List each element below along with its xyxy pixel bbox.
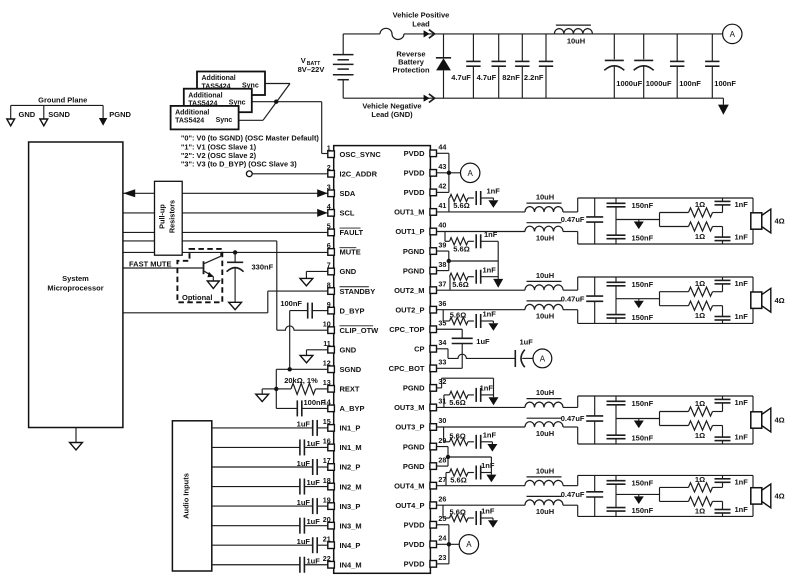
pin 35 CPC_TOP <box>430 326 437 333</box>
capacitor 150nF OUT1 bottom <box>615 220 617 236</box>
inductor 10uH OUT1 M <box>437 211 526 213</box>
svg-text:5.6Ω: 5.6Ω <box>453 201 469 210</box>
pin 23 PVDD <box>430 561 437 568</box>
pin 11 GND <box>328 346 335 353</box>
pin 5 FAULT <box>328 229 335 236</box>
svg-text:44: 44 <box>438 143 446 152</box>
resistor 1ohm OUT3 top <box>689 407 713 416</box>
pin 17 IN2_P <box>328 464 335 471</box>
ground arrow OUT1 <box>638 220 640 222</box>
capacitor 1uF CP pump <box>514 350 516 367</box>
capacitor 1uF IN2_P <box>212 466 313 468</box>
svg-text:4Ω: 4Ω <box>775 296 785 305</box>
svg-text:PGND: PGND <box>403 384 425 393</box>
svg-text:1nF: 1nF <box>735 398 749 407</box>
capacitor 1uF CPC <box>437 328 463 330</box>
wire rails OUT2 <box>577 277 579 290</box>
pin 13 REXT <box>328 386 335 393</box>
junction PGND 29/28 <box>446 455 450 459</box>
svg-text:1uF: 1uF <box>520 337 534 346</box>
capacitor 1nF snubber OUT4_P <box>475 511 477 525</box>
wire SCL row <box>123 212 328 214</box>
svg-text:IN4_M: IN4_M <box>340 560 362 569</box>
capacitor 0.47uF OUT2 <box>594 277 596 296</box>
svg-text:8V–22V: 8V–22V <box>298 65 325 74</box>
ground SGND open arrow <box>262 388 276 390</box>
svg-text:4.7uF: 4.7uF <box>451 73 471 82</box>
junction PVDD bottom <box>447 542 451 546</box>
svg-text:5.6Ω: 5.6Ω <box>450 311 466 320</box>
diode reverse battery protection <box>443 34 445 58</box>
net label A charge pump <box>533 349 552 368</box>
wire bottom rail vehicle negative <box>343 97 723 99</box>
inductor 10uH OUT1 P <box>437 231 526 233</box>
ground arrow snubber OUT1_M <box>492 198 494 200</box>
svg-text:1: 1 <box>327 143 331 152</box>
resistor 5.6ohm snubber OUT1_M <box>448 198 450 212</box>
svg-text:36: 36 <box>438 299 446 308</box>
svg-text:17: 17 <box>323 456 331 465</box>
svg-text:1uF: 1uF <box>297 498 311 507</box>
junction MUTE node <box>233 250 237 254</box>
svg-text:4Ω: 4Ω <box>775 416 785 425</box>
svg-text:30: 30 <box>438 416 446 425</box>
svg-text:OUT2_M: OUT2_M <box>394 286 424 295</box>
pin 41 OUT1_M <box>430 209 437 216</box>
resistor 1ohm OUT1 top <box>689 208 713 217</box>
svg-text:FAULT: FAULT <box>340 228 364 237</box>
wire SDA row <box>123 192 328 194</box>
svg-text:100nF: 100nF <box>280 299 302 308</box>
svg-text:1uF: 1uF <box>307 517 321 526</box>
svg-text:1nF: 1nF <box>735 279 749 288</box>
inductor 10uH power <box>554 29 592 34</box>
svg-text:SGND: SGND <box>340 365 362 374</box>
svg-text:PGND: PGND <box>403 266 425 275</box>
svg-text:1nF: 1nF <box>487 187 501 196</box>
wire top rail vehicle positive <box>343 33 380 35</box>
capacitor 1nF snubber OUT3_M <box>475 388 477 402</box>
connector chevrons bottom <box>424 95 430 102</box>
pin 9 D_BYP <box>328 307 335 314</box>
svg-text:150nF: 150nF <box>632 313 654 322</box>
svg-text:23: 23 <box>438 553 446 562</box>
inductor 10uH OUT3 P <box>437 426 526 428</box>
resistor 5.6ohm snubber OUT1_P <box>444 232 446 242</box>
svg-text:Protection: Protection <box>392 66 430 75</box>
svg-text:100nF: 100nF <box>714 79 736 88</box>
pin 39 PGND <box>430 248 437 255</box>
svg-text:20kΩ, 1%: 20kΩ, 1% <box>284 376 318 385</box>
svg-text:Resistors: Resistors <box>168 200 177 233</box>
svg-text:18: 18 <box>323 476 331 485</box>
inductor 10uH OUT2 M <box>437 289 526 291</box>
capacitor 150nF OUT3 bottom <box>615 419 617 436</box>
wire zobel OUT2 <box>659 292 661 306</box>
ground arrow PGND ch1/2 <box>493 279 503 288</box>
capacitor 150nF OUT3 top <box>615 396 617 401</box>
wire rails OUT1 <box>577 198 579 212</box>
svg-text:1nF: 1nF <box>735 505 749 514</box>
junction PGND 39/38 <box>447 259 451 263</box>
capacitor 1nF OUT2 top <box>722 284 724 292</box>
capacitor 1000uF bulk <box>613 34 615 59</box>
svg-text:1Ω: 1Ω <box>695 232 705 241</box>
svg-text:Pull-up: Pull-up <box>158 204 167 229</box>
svg-text:1nF: 1nF <box>735 478 749 487</box>
svg-text:0.47uF: 0.47uF <box>561 294 585 303</box>
block Pull-up Resistors <box>155 181 183 255</box>
svg-text:5.6Ω: 5.6Ω <box>452 280 468 289</box>
svg-text:REXT: REXT <box>340 385 360 394</box>
connector chevrons top <box>424 30 430 37</box>
wire sync box1 to diagonal <box>265 83 290 85</box>
wire PGND pins 39/38 <box>437 250 449 252</box>
svg-text:28: 28 <box>438 455 446 464</box>
capacitor 150nF OUT1 top <box>615 198 617 203</box>
svg-text:PVDD: PVDD <box>404 149 425 158</box>
svg-text:Audio Inputs: Audio Inputs <box>182 473 191 519</box>
capacitor 1uF IN3_M <box>212 525 300 527</box>
svg-text:42: 42 <box>438 182 446 191</box>
capacitor 1nF snubber OUT2_P <box>475 314 477 328</box>
svg-text:A: A <box>466 540 472 549</box>
svg-text:PGND: PGND <box>403 442 425 451</box>
svg-text:150nF: 150nF <box>632 434 654 443</box>
resistor 5.6ohm snubber OUT4_M <box>445 473 447 486</box>
svg-text:4Ω: 4Ω <box>775 217 785 226</box>
svg-text:20: 20 <box>323 515 331 524</box>
svg-text:MUTE: MUTE <box>340 248 361 257</box>
capacitor 1nF OUT3 bottom <box>722 426 724 438</box>
pin 37 OUT2_M <box>430 287 437 294</box>
svg-text:PGND: PGND <box>109 110 131 119</box>
wire MUTE row <box>123 251 328 253</box>
svg-text:35: 35 <box>438 318 446 327</box>
svg-text:IN3_P: IN3_P <box>340 502 361 511</box>
capacitor 150nF OUT2 bottom <box>615 299 617 315</box>
svg-text:IN2_P: IN2_P <box>340 463 361 472</box>
capacitor 1uF IN4_P <box>212 544 313 546</box>
svg-text:40: 40 <box>438 221 446 230</box>
capacitor 82nF input filter <box>521 34 523 62</box>
wire sync box3 to diagonal <box>238 119 263 121</box>
svg-text:43: 43 <box>438 162 446 171</box>
svg-text:15: 15 <box>323 417 331 426</box>
svg-text:5.6Ω: 5.6Ω <box>449 431 465 440</box>
capacitor 1nF OUT4 top <box>722 482 724 487</box>
capacitor 1nF snubber OUT1_M <box>475 191 477 205</box>
wire rails OUT4 <box>577 475 579 485</box>
wire STANDBY path <box>123 312 268 314</box>
svg-text:10uH: 10uH <box>536 388 554 397</box>
pin 18 IN2_M <box>328 483 335 490</box>
ground arrow OUT4 <box>638 494 640 496</box>
pin 43 PVDD <box>430 170 437 177</box>
svg-text:10uH: 10uH <box>536 233 554 242</box>
net label A pvdd bottom <box>459 535 478 554</box>
pin 34 CP <box>430 346 437 353</box>
svg-text:11: 11 <box>323 339 331 348</box>
svg-text:4.7uF: 4.7uF <box>477 73 497 82</box>
svg-text:5.6Ω: 5.6Ω <box>450 476 466 485</box>
svg-text:OSC_SYNC: OSC_SYNC <box>340 150 382 159</box>
svg-text:1uF: 1uF <box>307 556 321 565</box>
wire CLIP_OTW feeder <box>123 240 277 242</box>
inductor 10uH OUT4 M <box>437 485 526 487</box>
capacitor 1nF OUT2 bottom <box>722 306 724 317</box>
svg-text:PGND: PGND <box>403 462 425 471</box>
svg-text:IN2_M: IN2_M <box>340 482 362 491</box>
pin 26 OUT4_P <box>430 502 437 509</box>
capacitor 1000uF bulk <box>643 34 645 59</box>
svg-text:1nF: 1nF <box>480 384 494 393</box>
ground arrow OUT2 <box>638 299 640 301</box>
svg-text:Additional: Additional <box>175 110 209 117</box>
junction sync <box>274 100 278 104</box>
svg-text:TAS5424: TAS5424 <box>175 118 204 125</box>
svg-text:1uF: 1uF <box>297 420 311 429</box>
svg-text:19: 19 <box>323 495 331 504</box>
capacitor 4.7uF input filter <box>472 34 474 62</box>
resistor 5.6ohm snubber OUT4_P <box>442 505 444 518</box>
svg-text:A: A <box>468 169 474 178</box>
svg-text:OUT1_P: OUT1_P <box>395 227 424 236</box>
resistor 1ohm OUT3 bottom <box>689 421 713 430</box>
wire PVDD top pins 44/43/42 <box>437 152 449 154</box>
resistor 1ohm OUT4 top <box>689 483 713 492</box>
pin 31 OUT3_M <box>430 404 437 411</box>
svg-text:14: 14 <box>323 398 331 407</box>
svg-text:24: 24 <box>438 534 446 543</box>
resistor 20kOhm REXT <box>276 388 291 390</box>
svg-text:PVDD: PVDD <box>404 560 425 569</box>
block System Microprocessor <box>29 142 123 428</box>
svg-text:1uF: 1uF <box>476 337 490 346</box>
svg-text:10uH: 10uH <box>536 312 554 321</box>
wire I2C_ADDR <box>252 173 328 175</box>
svg-text:10uH: 10uH <box>536 271 554 280</box>
wire mid node OUT3 <box>616 418 660 420</box>
junction D_BYP to SGND <box>288 367 292 371</box>
wire PGND tie ch1/2 <box>449 260 498 262</box>
wire PGND pins 29/28 <box>437 446 449 448</box>
ground GND pin11 arrow <box>307 349 328 351</box>
pin 27 OUT4_M <box>430 482 437 489</box>
svg-text:1uF: 1uF <box>307 478 321 487</box>
capacitor 100nF D_BYP <box>312 310 328 312</box>
capacitor 1nF snubber OUT1_P <box>475 234 477 248</box>
svg-text:37: 37 <box>438 279 446 288</box>
speaker 4ohm OUT2 <box>751 292 762 308</box>
svg-text:41: 41 <box>438 201 446 210</box>
ground arrow snubber OUT3_P <box>491 442 493 444</box>
svg-text:1nF: 1nF <box>735 200 749 209</box>
ground GND pin7 arrow <box>306 270 327 272</box>
svg-text:A: A <box>540 354 546 363</box>
svg-text:CLIP_OTW: CLIP_OTW <box>340 326 380 335</box>
capacitor 330nF <box>234 252 236 262</box>
svg-text:OUT3_P: OUT3_P <box>395 423 424 432</box>
svg-text:IN1_M: IN1_M <box>340 443 362 452</box>
svg-text:1Ω: 1Ω <box>695 311 705 320</box>
ground arrow snubber OUT4_P <box>492 518 494 520</box>
svg-text:1nF: 1nF <box>483 310 497 319</box>
block Additional TAS5424 #2 <box>184 89 252 113</box>
svg-text:10uH: 10uH <box>536 193 554 202</box>
pin 4 SCL <box>328 210 335 217</box>
svg-text:10uH: 10uH <box>536 466 554 475</box>
svg-text:1nF: 1nF <box>735 233 749 242</box>
capacitor 0.47uF OUT3 <box>594 396 596 416</box>
svg-text:21: 21 <box>323 534 331 543</box>
svg-text:0.47uF: 0.47uF <box>561 490 585 499</box>
svg-text:1Ω: 1Ω <box>695 200 705 209</box>
capacitor 2.2nF input filter <box>545 34 547 62</box>
capacitor 100nF hf <box>711 34 713 62</box>
svg-text:V: V <box>301 56 306 65</box>
speaker 4ohm OUT3 <box>751 412 762 428</box>
ground arrow snubber OUT2_P <box>492 321 494 323</box>
svg-text:8: 8 <box>327 280 331 289</box>
svg-text:GND: GND <box>340 267 357 276</box>
svg-text:1Ω: 1Ω <box>695 399 705 408</box>
svg-text:1uF: 1uF <box>297 537 311 546</box>
pin 29 PGND <box>430 443 437 450</box>
svg-text:82nF: 82nF <box>502 73 520 82</box>
svg-text:IN3_M: IN3_M <box>340 521 362 530</box>
battery V_BATT <box>342 34 344 55</box>
resistor 5.6ohm snubber OUT3_M <box>443 395 445 408</box>
wire sync diagonal <box>263 84 290 121</box>
svg-text:A_BYP: A_BYP <box>340 404 365 413</box>
svg-text:1000uF: 1000uF <box>646 79 672 88</box>
ground arrow PGND ch4 <box>486 475 496 483</box>
svg-text:Vehicle Positive: Vehicle Positive <box>393 11 450 20</box>
svg-text:1uF: 1uF <box>297 459 311 468</box>
pin 24 PVDD <box>430 541 437 548</box>
ground PGND filled arrow <box>102 105 104 118</box>
capacitor 1uF IN3_P <box>212 505 313 507</box>
inductor 10uH OUT3 M <box>437 406 526 408</box>
fuse <box>380 28 404 39</box>
capacitor 1nF snubber OUT4_M <box>475 466 477 480</box>
resistor 5.6ohm snubber OUT2_P <box>442 310 444 321</box>
svg-text:3: 3 <box>327 183 331 192</box>
svg-text:4: 4 <box>327 202 331 211</box>
speaker 4ohm OUT4 <box>751 488 762 504</box>
wire PGND pin32 tie <box>437 387 442 389</box>
svg-text:Optional: Optional <box>182 293 212 302</box>
svg-text:PVDD: PVDD <box>404 169 425 178</box>
pin 40 OUT1_P <box>430 228 437 235</box>
resistor 1ohm OUT2 top <box>689 287 713 296</box>
speaker 4ohm OUT1 <box>751 213 762 229</box>
pin 28 PGND <box>430 463 437 470</box>
svg-text:1Ω: 1Ω <box>695 279 705 288</box>
svg-text:1uF: 1uF <box>307 439 321 448</box>
svg-text:34: 34 <box>438 338 446 347</box>
capacitor 1nF OUT1 top <box>722 205 724 213</box>
wire mid node OUT4 <box>616 493 660 495</box>
svg-text:5.6Ω: 5.6Ω <box>449 398 465 407</box>
block Optional dashed <box>177 249 222 302</box>
capacitor 1nF OUT4 bottom <box>722 501 724 509</box>
capacitor 0.47uF OUT4 <box>594 475 596 491</box>
svg-text:27: 27 <box>438 475 446 484</box>
svg-text:150nF: 150nF <box>632 201 654 210</box>
svg-text:STANDBY: STANDBY <box>340 287 376 296</box>
svg-text:PVDD: PVDD <box>404 540 425 549</box>
svg-text:0.47uF: 0.47uF <box>561 215 585 224</box>
svg-text:PGND: PGND <box>403 247 425 256</box>
svg-text:A: A <box>730 30 736 39</box>
svg-text:GND: GND <box>19 110 36 119</box>
pin 7 GND <box>328 268 335 275</box>
svg-text:330nF: 330nF <box>252 263 274 272</box>
pin 19 IN3_P <box>328 503 335 510</box>
svg-text:5.6Ω: 5.6Ω <box>449 508 465 517</box>
pin 12 SGND <box>328 366 335 373</box>
svg-text:9: 9 <box>327 300 331 309</box>
svg-text:"0": V0 (to SGND) (OSC Master: "0": V0 (to SGND) (OSC Master Default) <box>181 134 320 143</box>
ground arrow PGND ch3 top <box>489 397 499 405</box>
capacitor 1nF snubber OUT2_M <box>475 270 477 284</box>
pin 14 A_BYP <box>328 405 335 412</box>
svg-text:I2C_ADDR: I2C_ADDR <box>340 169 378 178</box>
svg-text:1nF: 1nF <box>483 431 497 440</box>
block Additional TAS5424 #1 <box>197 72 265 96</box>
wire SGND vertical <box>275 369 277 408</box>
capacitor 4.7uF input filter <box>498 34 500 62</box>
ground arrow right of bottom rail <box>722 98 724 104</box>
svg-text:OUT2_P: OUT2_P <box>395 305 424 314</box>
pin 36 OUT2_P <box>430 306 437 313</box>
svg-text:"3": V3 (to D_BYP) (OSC Slave: "3": V3 (to D_BYP) (OSC Slave 3) <box>181 159 297 168</box>
svg-text:System: System <box>62 274 89 283</box>
svg-text:29: 29 <box>438 436 446 445</box>
resistor 1ohm OUT2 bottom <box>689 301 713 310</box>
pin 20 IN3_M <box>328 522 335 529</box>
ground arrow OUT3 <box>638 419 640 421</box>
pin 1 OSC_SYNC <box>328 151 335 158</box>
ground GND open arrow <box>10 105 12 119</box>
capacitor 0.47uF OUT1 <box>594 198 596 217</box>
resistor 5.6ohm snubber OUT3_P <box>443 427 445 442</box>
junction PVDD top <box>447 171 451 175</box>
resistor 1ohm OUT4 bottom <box>689 497 713 506</box>
svg-text:1nF: 1nF <box>483 265 497 274</box>
svg-text:2: 2 <box>327 163 331 172</box>
svg-text:OUT3_M: OUT3_M <box>394 403 424 412</box>
svg-text:SGND: SGND <box>48 110 70 119</box>
svg-text:0.47uF: 0.47uF <box>561 414 585 423</box>
svg-text:1nF: 1nF <box>735 433 749 442</box>
svg-text:Lead: Lead <box>412 20 430 29</box>
capacitor 1nF OUT1 bottom <box>722 227 724 238</box>
capacitor 150nF OUT4 bottom <box>615 494 617 507</box>
pin 8 STANDBY <box>328 288 335 295</box>
pin 44 PVDD <box>430 150 437 157</box>
pin 42 PVDD <box>430 189 437 196</box>
wire rails OUT3 <box>577 396 579 407</box>
svg-text:150nF: 150nF <box>632 478 654 487</box>
svg-text:PVDD: PVDD <box>404 188 425 197</box>
svg-text:Ground Plane: Ground Plane <box>38 96 87 105</box>
capacitor 1nF snubber OUT3_P <box>475 435 477 449</box>
svg-text:CPC_BOT: CPC_BOT <box>389 364 425 373</box>
capacitor 100nF A_BYP <box>276 407 297 409</box>
